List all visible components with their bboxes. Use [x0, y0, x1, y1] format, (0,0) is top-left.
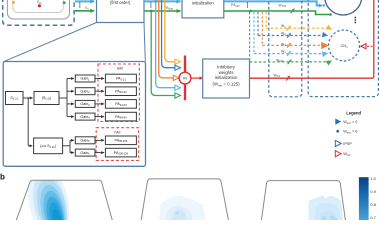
svg-text:0.8: 0.8 — [370, 202, 376, 207]
svg-text:Legend: Legend — [346, 111, 361, 116]
svg-text:FAII: FAII — [114, 130, 120, 134]
svg-text:IN: IN — [183, 77, 187, 81]
svg-text:1.0: 1.0 — [370, 176, 376, 181]
svg-text:IPSP: IPSP — [343, 142, 352, 146]
svg-text:SAII: SAII — [117, 67, 123, 71]
svg-text:S1-21: S1-21 — [10, 96, 18, 101]
svg-text:|S1-21|: |S1-21| — [42, 96, 52, 101]
svg-text:Gain5: Gain5 — [80, 139, 90, 144]
svg-text:b: b — [0, 173, 5, 182]
svg-text:PA85-105: PA85-105 — [115, 139, 128, 144]
svg-text:0.7: 0.7 — [370, 215, 376, 220]
svg-text:initialization: initialization — [192, 1, 214, 6]
svg-text:0.9: 0.9 — [370, 189, 376, 194]
svg-text:Inhibitory: Inhibitory — [217, 65, 236, 70]
svg-text:initialization: initialization — [215, 75, 238, 80]
svg-text:(first order): (first order) — [110, 0, 131, 5]
svg-text:weights: weights — [219, 70, 235, 75]
